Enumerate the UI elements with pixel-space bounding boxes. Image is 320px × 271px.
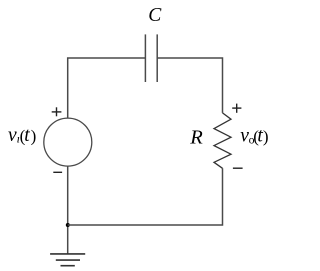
voltage source VS circle	[44, 118, 92, 166]
label vi(t)	[8, 125, 36, 146]
svg-text:): )	[263, 127, 269, 146]
svg-text:R: R	[189, 127, 203, 149]
wire source bottom to ground through junction	[67, 166, 69, 254]
svg-text:): )	[31, 127, 37, 146]
resistor R zigzag	[214, 113, 231, 168]
wire top-right (capacitor right plate to resistor top)	[157, 58, 222, 113]
wire bottom (junction to resistor bottom)	[68, 168, 223, 225]
svg-text:C: C	[148, 5, 162, 26]
polarity - (resistor bottom)	[233, 167, 243, 169]
polarity - (source bottom)	[53, 171, 62, 173]
node junction dot	[66, 223, 70, 227]
label vo(t)	[240, 125, 268, 146]
capacitor C1 plates	[145, 34, 157, 82]
ground	[50, 254, 85, 266]
polarity + (source top)	[52, 107, 62, 116]
polarity + (resistor top)	[232, 104, 241, 113]
svg-text:t: t	[24, 125, 30, 146]
wire top-left (source top to capacitor left plate)	[68, 58, 146, 118]
